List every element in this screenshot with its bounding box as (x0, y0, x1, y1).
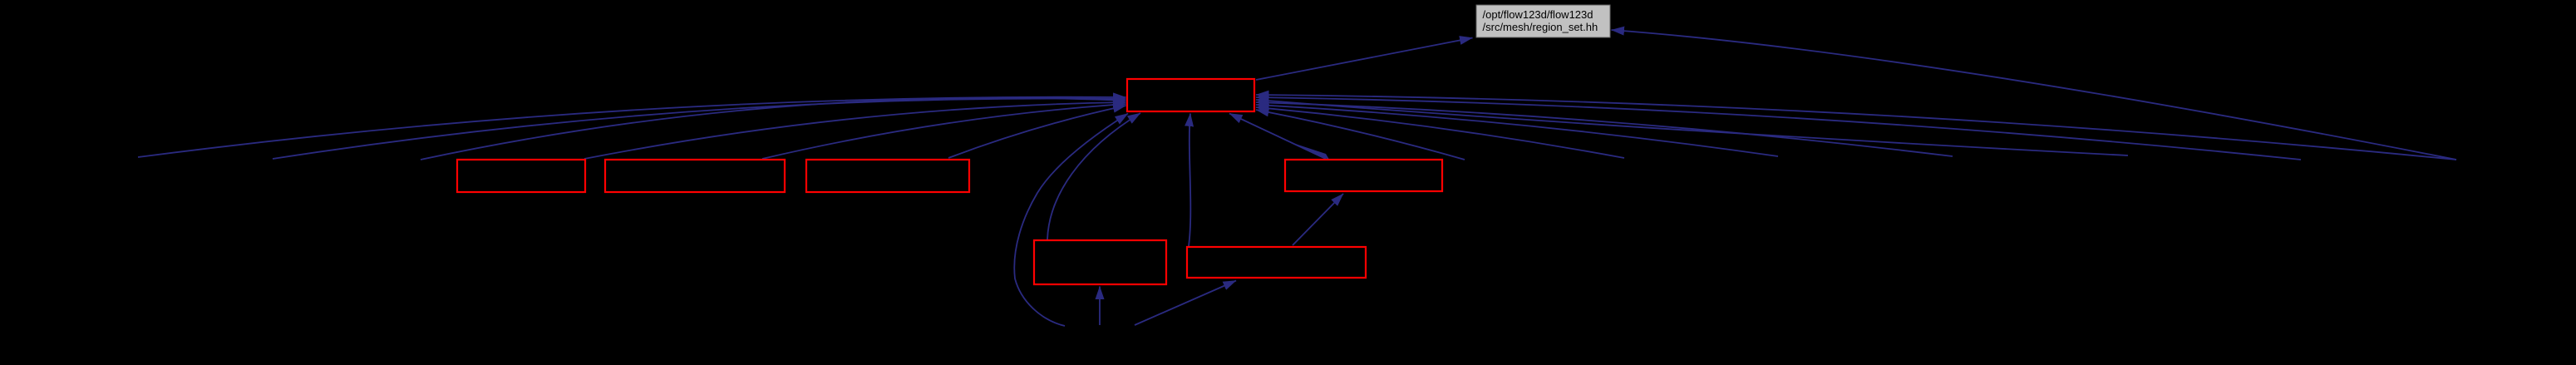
svg-text:/src/mesh/region_set.hh: /src/mesh/region_set.hh (1483, 21, 1598, 33)
svg-text:/opt/flow123d/flow123d: /opt/flow123d/flow123d (1483, 8, 1593, 21)
